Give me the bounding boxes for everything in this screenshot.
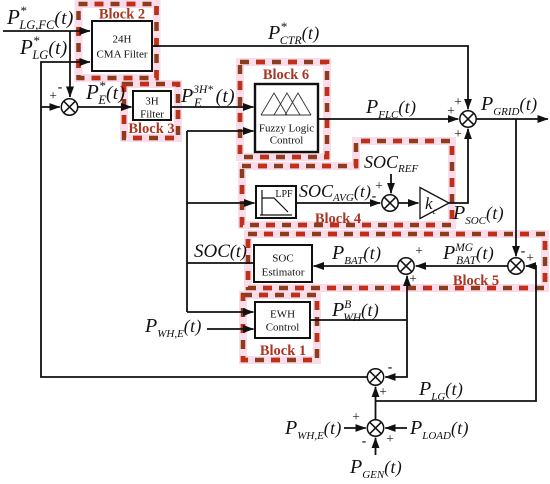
svg-text:Fuzzy Logic: Fuzzy Logic (259, 123, 314, 135)
svg-text:Estimator: Estimator (262, 267, 305, 279)
svg-text:24H: 24H (113, 34, 132, 46)
svg-text:+: + (352, 409, 360, 424)
svg-text:-: - (58, 79, 63, 94)
svg-text:+: + (454, 94, 462, 109)
svg-text:Block 6: Block 6 (263, 67, 309, 83)
svg-text:P*E(t): P*E(t) (85, 78, 125, 107)
svg-text:+: + (454, 126, 462, 141)
svg-text:+: + (379, 384, 387, 399)
svg-text:EWH: EWH (270, 309, 295, 321)
svg-text:+: + (415, 243, 423, 258)
svg-text:-: - (372, 188, 377, 203)
svg-text:+: + (375, 178, 383, 193)
svg-text:-: - (388, 359, 393, 374)
svg-text:CMA Filter: CMA Filter (96, 49, 147, 61)
svg-text:Block 5: Block 5 (453, 273, 499, 289)
svg-text:+: + (49, 88, 57, 103)
svg-text:-: - (521, 243, 526, 258)
svg-text:+: + (386, 431, 394, 446)
svg-text:Block 2: Block 2 (99, 7, 145, 23)
svg-text:-: - (362, 433, 367, 448)
svg-text:Control: Control (266, 322, 300, 334)
svg-text:SOC: SOC (272, 253, 293, 265)
svg-text:+: + (526, 250, 534, 265)
svg-text:Filter: Filter (140, 109, 164, 121)
svg-text:Block 1: Block 1 (260, 343, 306, 359)
svg-text:LPF: LPF (275, 189, 293, 200)
svg-text:Block 4: Block 4 (315, 211, 361, 227)
svg-text:3H: 3H (145, 96, 159, 108)
svg-text:+: + (409, 271, 417, 286)
svg-text:Block 3: Block 3 (128, 121, 174, 137)
svg-text:SOC(t): SOC(t) (194, 241, 247, 262)
svg-text:Control: Control (270, 135, 304, 147)
